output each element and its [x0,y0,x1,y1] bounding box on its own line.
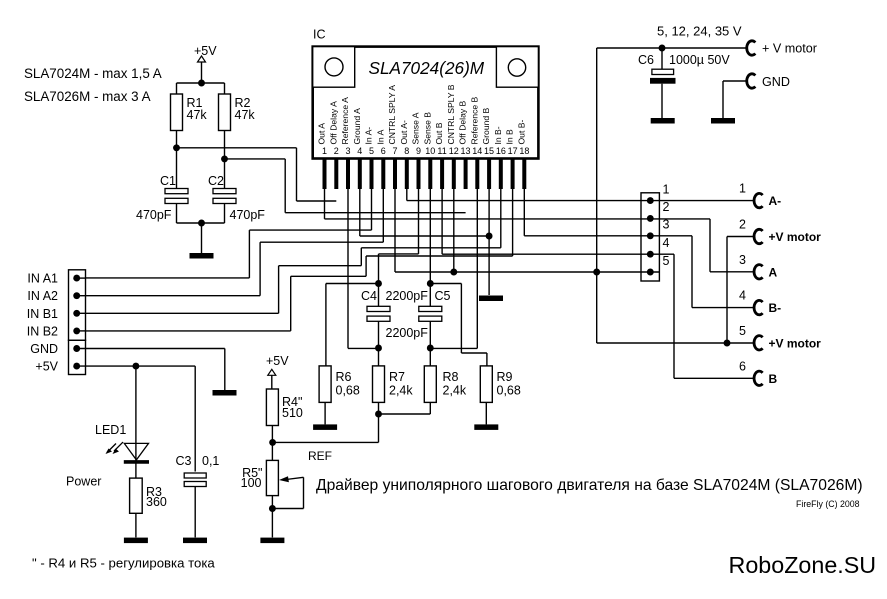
svg-text:0,68: 0,68 [336,384,360,398]
svg-text:Off Delay B: Off Delay B [458,100,468,144]
svg-text:1000µ 50V: 1000µ 50V [669,53,730,67]
svg-text:B-: B- [769,301,782,315]
svg-text:5, 12, 24, 35 V: 5, 12, 24, 35 V [657,24,742,39]
svg-text:2: 2 [663,200,670,214]
svg-text:510: 510 [282,406,303,420]
svg-text:9: 9 [416,146,421,156]
svg-text:4: 4 [357,146,362,156]
svg-text:A: A [769,265,778,279]
svg-text:5: 5 [663,254,670,268]
svg-text:+5V: +5V [194,44,217,58]
svg-text:1: 1 [739,182,746,196]
svg-text:RoboZone.SU: RoboZone.SU [729,552,877,578]
svg-text:Sense B: Sense B [422,112,432,145]
svg-text:R6: R6 [336,370,352,384]
svg-text:+ V motor: + V motor [762,42,817,56]
svg-text:14: 14 [472,146,482,156]
svg-text:Power: Power [66,475,101,489]
svg-text:SLA7024(26)M: SLA7024(26)M [369,58,485,78]
svg-text:Out B-: Out B- [516,120,526,145]
svg-text:In B: In B [505,129,515,145]
svg-text:B: B [769,372,778,386]
svg-text:GND: GND [30,342,58,356]
svg-text:8: 8 [404,146,409,156]
svg-text:R8: R8 [443,370,459,384]
svg-text:IN A1: IN A1 [27,272,58,286]
svg-text:R9: R9 [497,370,513,384]
svg-text:Reference A: Reference A [340,97,350,145]
svg-text:Sense A: Sense A [411,112,421,144]
svg-text:17: 17 [508,146,518,156]
svg-text:CNTRL SPLY B: CNTRL SPLY B [446,84,456,144]
svg-text:+V motor: +V motor [769,336,822,350]
svg-text:13: 13 [461,146,471,156]
svg-text:Ground A: Ground A [352,108,362,145]
svg-text:A-: A- [769,194,782,208]
svg-text:Драйвер униполярного шагового: Драйвер униполярного шагового двигателя … [316,477,863,494]
svg-text:LED1: LED1 [95,423,126,437]
svg-text:18: 18 [519,146,529,156]
svg-text:0,1: 0,1 [202,454,219,468]
svg-text:" - R4 и R5 - регулировка тока: " - R4 и R5 - регулировка тока [32,556,215,571]
svg-text:3: 3 [739,253,746,267]
svg-text:Out A: Out A [317,123,327,145]
svg-text:Reference B: Reference B [469,96,479,144]
svg-text:C5: C5 [435,289,451,303]
svg-text:FireFly (C) 2008: FireFly (C) 2008 [796,499,860,509]
svg-text:SLA7024M - max 1,5 A: SLA7024M - max 1,5 A [24,66,162,81]
svg-text:+5V: +5V [266,354,289,368]
svg-text:3: 3 [663,218,670,232]
svg-text:4: 4 [739,289,746,303]
svg-text:Out A-: Out A- [399,120,409,144]
svg-text:+5V: +5V [35,360,58,374]
svg-text:100: 100 [241,476,262,490]
svg-text:12: 12 [449,146,459,156]
svg-text:Off Delay A: Off Delay A [328,101,338,145]
svg-text:R7: R7 [389,370,405,384]
svg-text:5: 5 [739,324,746,338]
svg-text:SLA7026M - max 3 A: SLA7026M - max 3 A [24,89,151,104]
svg-text:2,4k: 2,4k [389,384,413,398]
svg-text:Ground B: Ground B [481,107,491,144]
svg-text:GND: GND [762,75,790,89]
svg-text:0,68: 0,68 [497,384,521,398]
svg-text:15: 15 [484,146,494,156]
svg-text:REF: REF [308,449,332,463]
svg-text:+V motor: +V motor [769,230,822,244]
svg-text:47k: 47k [235,108,256,122]
svg-text:360: 360 [146,495,167,509]
svg-text:470pF: 470pF [136,208,172,222]
svg-text:10: 10 [425,146,435,156]
svg-text:In B-: In B- [493,126,503,144]
svg-text:C1: C1 [160,174,176,188]
svg-text:Out B: Out B [434,122,444,144]
svg-text:5: 5 [369,146,374,156]
svg-text:6: 6 [381,146,386,156]
svg-text:3: 3 [346,146,351,156]
svg-text:47k: 47k [187,108,208,122]
svg-text:2: 2 [739,218,746,232]
svg-text:IN B2: IN B2 [27,324,58,338]
svg-text:IN A2: IN A2 [27,289,58,303]
svg-text:In A: In A [375,129,385,144]
svg-text:2200pF: 2200pF [386,326,429,340]
svg-text:1: 1 [663,182,670,196]
svg-text:C2: C2 [208,174,224,188]
svg-text:C4: C4 [361,289,377,303]
svg-text:C3: C3 [176,454,192,468]
svg-text:4: 4 [663,236,670,250]
svg-text:In A-: In A- [364,127,374,145]
svg-text:16: 16 [496,146,506,156]
svg-text:7: 7 [393,146,398,156]
svg-text:470pF: 470pF [230,208,266,222]
svg-text:2200pF: 2200pF [386,289,429,303]
svg-text:11: 11 [437,146,446,156]
svg-text:2,4k: 2,4k [443,384,467,398]
svg-text:C6: C6 [638,53,654,67]
svg-text:IC: IC [313,28,326,42]
svg-text:1: 1 [322,146,327,156]
svg-text:2: 2 [334,146,339,156]
svg-text:IN B1: IN B1 [27,307,58,321]
svg-text:6: 6 [739,359,746,373]
svg-text:CNTRL SPLY A: CNTRL SPLY A [387,85,397,145]
